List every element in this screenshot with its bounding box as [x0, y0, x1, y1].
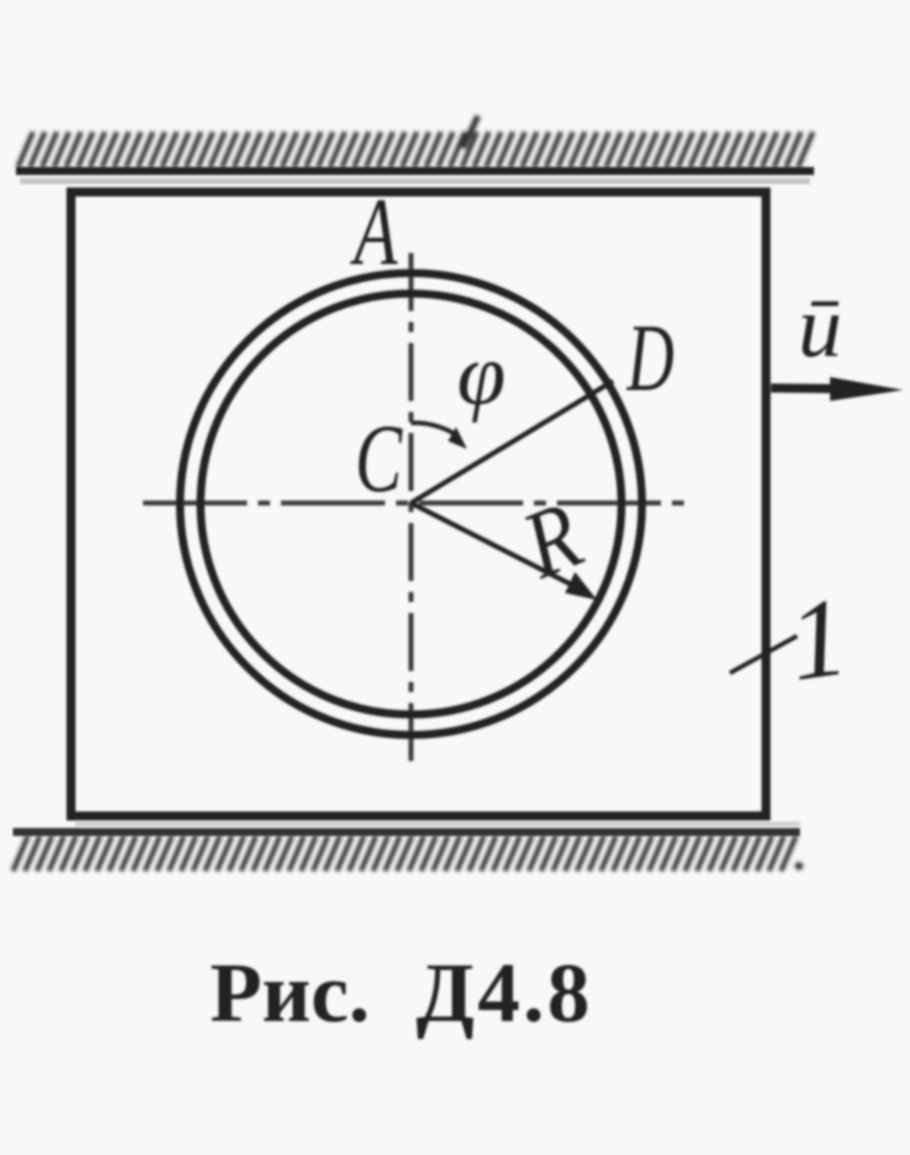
- radius R arrowhead: [565, 572, 597, 600]
- radius R line: [411, 503, 584, 591]
- top wall hatching: [18, 116, 813, 167]
- circular channel outer circle: [180, 273, 642, 735]
- svg-text:Рис.: Рис.: [210, 946, 370, 1040]
- top wall line: [16, 167, 814, 175]
- scan ghost under top wall: [20, 178, 810, 184]
- scan ghost above bottom wall: [75, 822, 800, 827]
- leader tick for label 1: [730, 636, 797, 673]
- angle phi arc arrowhead: [448, 427, 467, 449]
- svg-text:Д4.8: Д4.8: [416, 946, 593, 1040]
- velocity u arrow: [771, 388, 862, 389]
- svg-text:ū: ū: [798, 279, 842, 376]
- svg-text:φ: φ: [457, 327, 506, 424]
- svg-text:C: C: [355, 405, 403, 513]
- vertical centerline: [409, 253, 414, 770]
- svg-text:D: D: [626, 305, 674, 411]
- bottom wall hatching: [13, 836, 803, 871]
- svg-text:1: 1: [782, 574, 855, 705]
- svg-text:A: A: [350, 180, 398, 286]
- horizontal centerline: [143, 501, 686, 506]
- svg-text:R: R: [509, 482, 596, 599]
- bottom wall line: [13, 828, 800, 836]
- angle phi arc: [411, 423, 453, 433]
- radius line CD: [411, 381, 613, 503]
- block 1 square: [71, 192, 766, 816]
- circular channel inner circle: [201, 294, 622, 715]
